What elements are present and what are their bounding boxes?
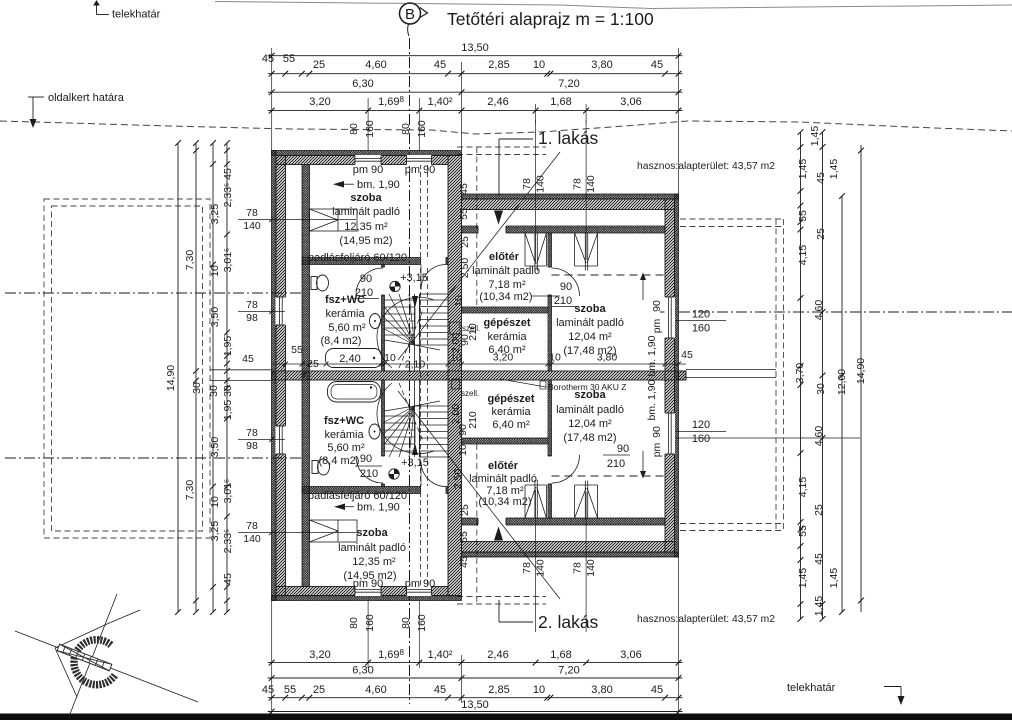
svg-text:pm 90: pm 90: [405, 578, 436, 590]
svg-text:3,50: 3,50: [209, 307, 221, 328]
svg-text:10: 10: [549, 352, 561, 364]
svg-text:padlásfeljáró 60/120: padlásfeljáró 60/120: [308, 490, 407, 502]
svg-text:12,04 m²: 12,04 m²: [568, 331, 612, 343]
svg-text:25: 25: [313, 684, 325, 696]
svg-text:2,85: 2,85: [488, 59, 509, 71]
svg-text:55: 55: [458, 208, 470, 220]
svg-text:telekhatár: telekhatár: [112, 9, 161, 21]
door szoba4 arc: [552, 455, 580, 483]
szoba1 south wall with hatch door gap: [302, 258, 448, 265]
svg-text:4,15: 4,15: [797, 477, 809, 498]
svg-text:45: 45: [262, 53, 274, 65]
party wall: [272, 371, 687, 380]
right eaves dashed lines: [775, 219, 777, 530]
svg-text:szoba: szoba: [356, 527, 388, 539]
szoba2 north wall with hatch door gap: [302, 487, 448, 494]
svg-text:55: 55: [284, 684, 296, 696]
svg-text:90: 90: [651, 300, 663, 312]
svg-text:bm. 1,90: bm. 1,90: [646, 379, 658, 420]
washbasin lower: [369, 424, 380, 439]
svg-text:25: 25: [459, 236, 471, 248]
svg-text:78: 78: [246, 207, 258, 219]
roof window szoba3 upper: [574, 233, 576, 266]
north symbol needle: [57, 644, 112, 671]
svg-text:55: 55: [291, 344, 303, 356]
outer wall right-block insulation right: [675, 194, 679, 557]
svg-text:előtér: előtér: [488, 460, 519, 472]
svg-text:160: 160: [416, 120, 428, 138]
entrance canopy dashed lines lower: [457, 596, 546, 598]
svg-text:1,45: 1,45: [797, 159, 809, 180]
svg-text:80: 80: [348, 123, 360, 135]
svg-text:2,10: 2,10: [405, 359, 426, 371]
svg-text:80: 80: [348, 617, 360, 629]
outer wall right-block insulation top: [462, 194, 679, 199]
svg-text:3,06: 3,06: [620, 96, 641, 108]
svg-text:90: 90: [651, 426, 663, 438]
svg-text:B: B: [405, 6, 415, 23]
bm 1,90 dashed line upper with arrow: [552, 274, 666, 276]
svg-text:210: 210: [467, 323, 479, 341]
svg-text:90: 90: [617, 443, 629, 455]
svg-text:pm: pm: [651, 442, 663, 457]
svg-text:80: 80: [400, 123, 412, 135]
svg-text:13,50: 13,50: [461, 42, 489, 54]
roof window szoba4 lower: [574, 485, 576, 518]
top dimension row 45 55 25 460 45 285 10 380 45: [268, 73, 683, 75]
svg-text:1,45: 1,45: [828, 159, 840, 180]
section marker stem: [408, 24, 409, 36]
svg-text:2,33⁵: 2,33⁵: [222, 529, 234, 554]
svg-text:5,60 m²: 5,60 m²: [328, 322, 366, 334]
svg-text:45: 45: [458, 556, 470, 568]
bottom dimension row 6,30 7,20: [268, 677, 683, 679]
svg-text:szoba: szoba: [574, 303, 606, 315]
entrance arrow lower: [494, 527, 503, 541]
svg-text:laminált padló: laminált padló: [556, 317, 624, 329]
door szoba2-stairhall arc: [421, 462, 446, 487]
window W2 top wall: [407, 155, 432, 165]
WC lower: [318, 459, 330, 475]
svg-text:12,35 m²: 12,35 m²: [352, 556, 396, 568]
svg-text:gépészet: gépészet: [483, 317, 530, 329]
svg-text:gépészet: gépészet: [487, 393, 534, 405]
svg-text:2,50: 2,50: [452, 469, 464, 490]
right dim ticks: [798, 129, 804, 135]
svg-text:3,25: 3,25: [209, 521, 221, 542]
svg-text:1. lakás: 1. lakás: [538, 128, 599, 148]
outer wall right-block masonry top: [462, 199, 675, 210]
svg-text:45: 45: [222, 573, 234, 585]
svg-text:+3,15: +3,15: [401, 457, 429, 469]
svg-text:szoba: szoba: [350, 192, 382, 204]
svg-text:oldalkert határa: oldalkert határa: [48, 92, 125, 104]
svg-text:4,60: 4,60: [365, 59, 386, 71]
label oldalkert hatara with leader arrow: [28, 96, 44, 98]
svg-text:120: 120: [692, 309, 710, 321]
svg-text:hasznos:alapterület: 43,57 m2: hasznos:alapterület: 43,57 m2: [637, 161, 775, 172]
window fsz+WC lower left wall: [276, 426, 287, 454]
svg-text:6,40 m²: 6,40 m²: [492, 419, 530, 431]
outer wall left-block insulation layer bottom: [272, 596, 462, 601]
svg-text:előtér: előtér: [489, 251, 520, 263]
internal dim line upper apartment: [272, 363, 687, 365]
svg-text:3,20: 3,20: [309, 96, 330, 108]
stair lower apartment: [377, 380, 448, 457]
sill leader lines 78/140 bottom right: [535, 490, 537, 632]
svg-text:1,68: 1,68: [550, 96, 571, 108]
roof window eloter lower: [524, 485, 526, 518]
sill leader lines 78/140 top right: [535, 120, 537, 262]
svg-text:25: 25: [813, 504, 825, 516]
svg-text:140: 140: [243, 533, 261, 545]
bottom dimension row 3,20 1,69 1,40 2,46 1,68 3,06: [268, 662, 683, 664]
svg-text:78: 78: [521, 562, 533, 574]
svg-text:160: 160: [692, 323, 710, 335]
window szoba3 right wall upper: [665, 297, 676, 338]
svg-text:4,60: 4,60: [813, 426, 825, 447]
svg-text:80: 80: [400, 617, 412, 629]
svg-text:2,85: 2,85: [488, 684, 509, 696]
outer wall right-block masonry bottom: [462, 542, 675, 553]
vent shaft lower: [452, 379, 460, 389]
svg-text:120: 120: [692, 419, 710, 431]
svg-text:(8,4 m2): (8,4 m2): [321, 335, 362, 347]
porch inner wall lower with entrance gap: [462, 518, 666, 525]
stair upper apartment: [377, 294, 448, 371]
partition fsz+WC upper: [382, 265, 385, 372]
svg-text:30: 30: [208, 385, 220, 397]
svg-text:45: 45: [434, 684, 446, 696]
outer wall left-block insulation layer left: [272, 151, 277, 601]
svg-text:fsz+WC: fsz+WC: [324, 415, 364, 427]
roof window szoba1: [310, 209, 358, 231]
svg-text:25: 25: [307, 358, 319, 370]
svg-text:pm 90: pm 90: [405, 164, 436, 176]
svg-text:210: 210: [554, 295, 572, 307]
svg-text:78: 78: [521, 178, 533, 190]
svg-text:210: 210: [355, 287, 373, 299]
left dim ticks: [224, 148, 230, 154]
svg-text:7,30: 7,30: [184, 480, 196, 501]
diagonal guide line upper: [398, 152, 560, 360]
svg-text:7,20: 7,20: [558, 78, 579, 90]
svg-text:laminált padló: laminált padló: [469, 473, 537, 485]
svg-text:2,33⁵: 2,33⁵: [222, 183, 234, 208]
svg-text:210: 210: [607, 458, 625, 470]
svg-text:45: 45: [262, 684, 274, 696]
svg-text:45: 45: [434, 59, 446, 71]
partition fsz+WC lower: [382, 380, 385, 487]
svg-text:(10,34 m2): (10,34 m2): [479, 291, 532, 303]
left eaves dashed rectangle outer: [44, 199, 210, 538]
top dim extension lines: [271, 48, 273, 151]
svg-text:4,60: 4,60: [813, 300, 825, 321]
svg-text:210: 210: [467, 411, 479, 429]
svg-text:45: 45: [651, 684, 663, 696]
porch inner wall upper with entrance gap: [462, 226, 666, 233]
window szoba4 right wall lower: [665, 413, 676, 454]
svg-text:10: 10: [457, 444, 469, 456]
outer wall left-block insulation layer top: [272, 151, 462, 156]
svg-text:Borotherm 30 AKU Z: Borotherm 30 AKU Z: [548, 382, 626, 392]
svg-text:1,45: 1,45: [813, 596, 825, 617]
svg-text:bm. 1,90: bm. 1,90: [646, 335, 658, 376]
window axis dash-dot right upper: [660, 311, 1012, 313]
svg-text:55: 55: [458, 531, 470, 543]
outer wall left-block masonry bottom: [276, 587, 448, 596]
door fsz+WC upper arc: [356, 268, 383, 295]
bathtub upper: [326, 349, 383, 368]
svg-text:25: 25: [459, 504, 471, 516]
stair opening dashed lines: [420, 164, 422, 586]
svg-text:1,68: 1,68: [550, 649, 571, 661]
outer wall left-block masonry left: [276, 156, 286, 596]
svg-text:4,60: 4,60: [365, 684, 386, 696]
vent shaft upper: [450, 322, 461, 334]
north symbol ring: [74, 640, 115, 685]
right dim vertical lines: [800, 132, 802, 619]
svg-text:3,01⁵: 3,01⁵: [222, 248, 234, 273]
svg-text:3,20: 3,20: [493, 352, 514, 364]
window W1b bottom wall: [355, 586, 381, 596]
svg-text:pm: pm: [651, 318, 663, 333]
telekhatar boundary dashed line: [0, 121, 1012, 134]
svg-text:3,70: 3,70: [794, 363, 806, 384]
section marker B circle: [400, 3, 421, 24]
axis B dash-dot line: [409, 38, 411, 704]
svg-text:13,50: 13,50: [461, 699, 489, 711]
svg-text:(8,4 m2): (8,4 m2): [319, 455, 360, 467]
svg-text:30: 30: [222, 385, 234, 397]
diagonal guide line lower: [398, 391, 560, 599]
svg-text:160: 160: [364, 120, 376, 138]
door fsz+WC lower arc: [356, 456, 383, 483]
svg-text:140: 140: [585, 175, 597, 193]
svg-text:12,35 m²: 12,35 m²: [344, 221, 388, 233]
top dimension row 6,30 7,20: [268, 91, 683, 93]
svg-text:160: 160: [364, 614, 376, 632]
svg-text:25: 25: [313, 59, 325, 71]
svg-text:45: 45: [651, 59, 663, 71]
svg-text:78: 78: [246, 520, 258, 532]
svg-text:12,00: 12,00: [836, 369, 848, 395]
svg-text:laminált padló: laminált padló: [556, 404, 624, 416]
svg-text:78: 78: [246, 299, 258, 311]
bottom dimension line 13,50: [268, 711, 683, 713]
svg-text:kerámia: kerámia: [325, 308, 365, 320]
svg-text:10: 10: [209, 496, 221, 508]
svg-text:98: 98: [246, 312, 258, 324]
roof window szoba2: [310, 520, 358, 542]
svg-text:90: 90: [360, 273, 372, 285]
window W2b bottom wall: [407, 586, 432, 596]
svg-text:(17,48 m2): (17,48 m2): [563, 432, 616, 444]
svg-text:140: 140: [585, 559, 597, 577]
outer wall left-block masonry top: [276, 156, 448, 165]
svg-text:laminált padló: laminált padló: [472, 265, 540, 277]
svg-text:10: 10: [209, 265, 221, 277]
svg-text:(14,95 m2): (14,95 m2): [339, 235, 392, 247]
svg-text:padlásfeljáró 60/120: padlásfeljáró 60/120: [308, 252, 407, 264]
svg-text:1,40²: 1,40²: [427, 649, 452, 661]
svg-text:3,80: 3,80: [597, 352, 618, 364]
svg-text:55: 55: [283, 53, 295, 65]
bottom dimension row 45 55 25 ...: [268, 697, 683, 699]
svg-text:7,18 m²: 7,18 m²: [488, 279, 526, 291]
page top edge line: [215, 2, 1012, 9]
svg-text:3,80: 3,80: [591, 59, 612, 71]
svg-text:10: 10: [533, 684, 545, 696]
WC upper: [317, 275, 329, 291]
svg-text:2,00: 2,00: [450, 404, 462, 425]
outer wall right-block masonry right: [665, 199, 675, 552]
page bottom border bar: [0, 714, 1012, 720]
svg-text:3,06: 3,06: [620, 649, 641, 661]
svg-text:kerámia: kerámia: [324, 429, 364, 441]
svg-text:160: 160: [416, 614, 428, 632]
svg-text:45: 45: [242, 353, 254, 365]
bottom dim extension lines: [271, 601, 273, 715]
svg-text:78: 78: [246, 427, 258, 439]
svg-text:7,30: 7,30: [184, 250, 196, 271]
svg-text:laminált padló: laminált padló: [338, 542, 406, 554]
svg-text:90: 90: [560, 281, 572, 293]
svg-text:140: 140: [243, 220, 261, 232]
north symbol lines: [15, 631, 198, 702]
svg-text:2. lakás: 2. lakás: [538, 612, 599, 632]
svg-text:1,95: 1,95: [222, 400, 234, 421]
svg-text:laminált padló: laminált padló: [332, 206, 400, 218]
svg-text:12,04 m²: 12,04 m²: [568, 418, 612, 430]
bathtub lower: [328, 382, 381, 403]
svg-text:30: 30: [191, 382, 203, 394]
svg-text:1,45: 1,45: [809, 126, 821, 147]
window axis dash-dot left upper: [5, 292, 302, 294]
svg-text:30: 30: [815, 383, 827, 395]
svg-text:3,50: 3,50: [209, 437, 221, 458]
partition elooter-szoba3 upper with door gap: [548, 233, 552, 371]
door szoba3 arc: [552, 268, 580, 296]
svg-text:160: 160: [692, 433, 710, 445]
svg-text:3,25: 3,25: [209, 204, 221, 225]
svg-text:55: 55: [797, 525, 809, 537]
svg-text:(10,34 m2): (10,34 m2): [478, 496, 531, 508]
svg-text:6,30: 6,30: [352, 665, 373, 677]
window axis dash-dot left lower: [5, 457, 302, 459]
knee wall inner upper+lower: [302, 165, 310, 587]
party wall stub beyond right wall: [679, 371, 687, 380]
svg-text:45: 45: [222, 168, 234, 180]
svg-text:6,30: 6,30: [352, 78, 373, 90]
svg-text:bm. 1,90: bm. 1,90: [357, 502, 400, 514]
svg-text:pm 90: pm 90: [353, 578, 384, 590]
roof window eloter upper: [524, 233, 526, 266]
svg-text:25: 25: [815, 228, 827, 240]
svg-text:45: 45: [815, 172, 827, 184]
svg-text:telekhatár: telekhatár: [787, 682, 836, 694]
svg-text:3,01⁵: 3,01⁵: [222, 479, 234, 504]
party wall extension lines right: [686, 369, 776, 371]
svg-text:55: 55: [797, 210, 809, 222]
entrance arrow upper: [494, 211, 503, 225]
svg-text:140: 140: [535, 175, 547, 193]
gepeszet wall upper: [462, 307, 549, 313]
svg-text:10: 10: [453, 295, 465, 307]
svg-text:45: 45: [458, 183, 470, 195]
svg-text:kerámia: kerámia: [491, 406, 531, 418]
svg-text:pm 90: pm 90: [353, 164, 384, 176]
svg-text:1,40²: 1,40²: [427, 96, 452, 108]
svg-text:szell.: szell.: [461, 389, 479, 398]
section marker side wedge: [420, 8, 428, 18]
svg-text:2,46: 2,46: [487, 649, 508, 661]
svg-text:1,95: 1,95: [222, 336, 234, 357]
top dimension line 13,50: [268, 55, 683, 57]
svg-text:78: 78: [572, 562, 584, 574]
label telekhatar top-left with arrow: [96, 2, 98, 15]
top dimension row 3,20 1,69 1,40 2,46 1,68 3,06: [268, 110, 683, 112]
svg-text:3,20: 3,20: [309, 649, 330, 661]
middle wall column: [448, 156, 462, 596]
svg-text:45: 45: [681, 349, 693, 361]
svg-text:2,46: 2,46: [487, 96, 508, 108]
door szoba1-stairhall arc: [421, 265, 446, 290]
svg-text:1,45: 1,45: [797, 568, 809, 589]
svg-text:hasznos:alapterület: 43,57 m2: hasznos:alapterület: 43,57 m2: [637, 614, 775, 625]
svg-text:kerámia: kerámia: [487, 331, 527, 343]
svg-text:98: 98: [246, 440, 258, 452]
outer wall right-block insulation bottom: [462, 552, 679, 557]
svg-text:14,90: 14,90: [165, 365, 177, 391]
svg-text:3,80: 3,80: [591, 684, 612, 696]
svg-text:2,40: 2,40: [339, 353, 360, 365]
svg-text:78: 78: [572, 178, 584, 190]
svg-text:4,15: 4,15: [797, 245, 809, 266]
svg-text:2,50: 2,50: [459, 258, 471, 279]
washbasin upper: [370, 314, 381, 329]
svg-text:10: 10: [533, 59, 545, 71]
svg-text:Tetőtéri alaprajz m = 1:100: Tetőtéri alaprajz m = 1:100: [447, 9, 654, 29]
svg-text:7,20: 7,20: [558, 665, 579, 677]
svg-text:45: 45: [813, 553, 825, 565]
svg-text:bm. 1,90: bm. 1,90: [357, 179, 400, 191]
svg-text:90: 90: [360, 453, 372, 465]
window W1 top wall: [355, 155, 381, 165]
gepeszet wall lower: [462, 438, 549, 444]
window fsz+WC upper left wall: [276, 297, 287, 325]
bm 1,90 dashed line lower with arrow: [552, 475, 666, 477]
svg-text:1,45: 1,45: [828, 568, 840, 589]
svg-text:210: 210: [360, 468, 378, 480]
window axis line right lower: [665, 437, 860, 439]
entrance canopy dashed lines upper: [457, 146, 546, 148]
svg-text:14,90: 14,90: [855, 358, 867, 384]
left dim vertical lines: [177, 143, 179, 612]
party wall extension lines left: [210, 369, 272, 371]
left eaves dashed rectangle inner: [52, 206, 203, 531]
partition elooter-szoba4 lower with door gap: [548, 380, 552, 518]
